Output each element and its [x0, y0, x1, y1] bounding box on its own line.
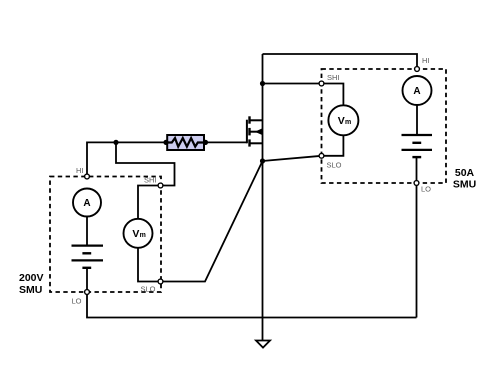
svg-text:SMU: SMU — [19, 284, 42, 296]
wire: drain sense to SHI of 50A SMU — [263, 83, 322, 85]
svg-text:SLO: SLO — [327, 160, 342, 169]
50A SMU enclosure (dashed) — [322, 69, 447, 183]
junction: resistor left terminal dot — [163, 140, 168, 145]
svg-text:LO: LO — [421, 185, 431, 194]
svg-text:V: V — [338, 115, 345, 127]
node SLO (200V SMU terminal) — [158, 279, 163, 284]
svg-text:SHI: SHI — [327, 73, 340, 82]
transistor Q1 (N-channel power MOSFET) — [247, 116, 263, 146]
wire: battery to LO (50A SMU) — [416, 157, 418, 183]
junction: source node — [260, 158, 265, 163]
ground — [256, 341, 270, 348]
svg-text:SLO: SLO — [140, 285, 155, 294]
wire: top rail from drain node to 50A SMU HI — [263, 54, 418, 69]
wire: bottom LO rail — [87, 292, 417, 318]
svg-text:V: V — [132, 228, 139, 240]
battery V2 (50A source) — [402, 135, 433, 157]
wire: voltmeter to SLO (200V SMU) — [138, 248, 161, 282]
node HI (50A SMU terminal) — [415, 67, 420, 72]
wire: resistor to MOSFET gate — [206, 141, 247, 143]
node SLO (50A SMU terminal) — [319, 153, 324, 158]
battery V1 (200V source) — [72, 246, 104, 268]
svg-text:SMU: SMU — [453, 179, 476, 191]
label: 50A SMU — [453, 167, 476, 191]
svg-text:m: m — [345, 119, 351, 126]
voltmeter Vm (50A SMU) — [328, 105, 358, 135]
svg-text:200V: 200V — [19, 272, 44, 284]
wire: gate sense from tap to SHI of 200V SMU — [116, 142, 175, 185]
wire: SHI to voltmeter (50A SMU) — [322, 84, 344, 106]
wire: source to ground — [262, 161, 264, 341]
svg-text:m: m — [140, 232, 146, 239]
junction: gate node tap — [113, 140, 118, 145]
wire: gate node horizontal from 200V SMU HI to resistor — [87, 142, 166, 176]
node SHI (50A SMU terminal) — [319, 81, 324, 86]
svg-text:50A: 50A — [455, 167, 475, 179]
node LO (200V SMU terminal) — [85, 290, 90, 295]
node HI (200V SMU terminal) — [85, 174, 90, 179]
svg-text:HI: HI — [422, 56, 430, 65]
wire: source sense diagonal to SLO of 200V SMU — [161, 161, 263, 282]
resistor R1 (gate resistor) — [167, 135, 204, 150]
svg-text:A: A — [83, 198, 90, 209]
wire: voltmeter to SLO (50A SMU) — [322, 135, 344, 156]
wire: ammeter to battery (200V SMU) — [86, 217, 88, 246]
node LO (50A SMU terminal) — [414, 181, 419, 186]
svg-text:LO: LO — [71, 297, 81, 306]
svg-text:A: A — [413, 86, 420, 97]
junction: resistor right terminal dot — [203, 140, 208, 145]
voltmeter Vm (200V SMU) — [124, 219, 153, 248]
200V SMU enclosure (dashed) — [50, 177, 161, 293]
wire: 50A SMU LO lead down to bottom rail — [416, 183, 418, 318]
ammeter A (50A SMU) — [403, 76, 432, 105]
wire: SHI to voltmeter (200V SMU) — [138, 186, 161, 219]
svg-text:HI: HI — [76, 166, 84, 175]
wire: drain/source vertical rail — [262, 54, 264, 161]
label: 200V SMU — [19, 272, 44, 296]
wire: source sense to SLO of 50A SMU — [263, 156, 322, 161]
node SHI (200V SMU terminal) — [158, 183, 163, 188]
junction: drain sense node — [260, 81, 265, 86]
svg-text:SHI: SHI — [144, 175, 157, 184]
ammeter A (200V SMU) — [73, 189, 101, 217]
wire: battery to LO (200V SMU) — [86, 268, 88, 292]
wire: ammeter to battery (50A SMU) — [416, 105, 418, 135]
